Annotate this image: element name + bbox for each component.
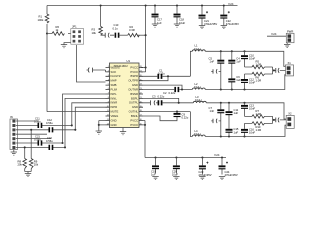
svg-text:0.56u: 0.56u: [34, 120, 41, 124]
capacitor C13a 10nF: [241, 103, 255, 117]
svg-text:0.56u: 0.56u: [34, 137, 41, 141]
capacitor C16a 10nF: [241, 123, 255, 136]
wire riser in2: [74, 107, 105, 131]
svg-text:5: 5: [108, 84, 109, 86]
svg-text:INPL: INPL: [111, 92, 118, 96]
resistor R7 1.0R: [245, 109, 273, 118]
svg-text:10nF: 10nF: [249, 107, 255, 111]
svg-text:470uF/35V: 470uF/35V: [226, 22, 239, 26]
capacitor C20 10uF: [172, 158, 180, 177]
svg-text:OUTPR: OUTPR: [128, 79, 138, 83]
connector X1: [286, 61, 294, 76]
svg-text:26: 26: [140, 75, 142, 77]
wire V24 to PWR: [267, 32, 286, 36]
svg-text:JP1: JP1: [72, 25, 77, 29]
svg-text:10uH: 10uH: [195, 98, 201, 102]
svg-text:2: 2: [108, 71, 109, 73]
svg-text:27: 27: [140, 71, 142, 73]
capacitor C18 10uF: [174, 4, 186, 24]
wire input w4: [16, 138, 51, 140]
svg-text:MHP: MHP: [111, 79, 117, 83]
svg-text:BSPR: BSPR: [131, 74, 139, 78]
svg-text:0.22u: 0.22u: [158, 72, 165, 76]
wire L4 out: [205, 125, 286, 137]
capacitor C13 0.1u: [113, 23, 128, 38]
svg-text:3.3R: 3.3R: [129, 28, 135, 32]
svg-text:10k: 10k: [92, 31, 97, 35]
capacitor C3 0.22u: [143, 95, 193, 106]
resistor R9 20k: [29, 129, 38, 172]
ground C17: [152, 24, 158, 27]
svg-text:10nF: 10nF: [249, 81, 255, 85]
svg-text:0.1u: 0.1u: [113, 26, 119, 30]
wire PVCC bottom vertical: [143, 121, 146, 158]
svg-text:28: 28: [140, 66, 142, 68]
ground input resistors: [25, 172, 32, 177]
svg-text:1uF: 1uF: [236, 78, 241, 82]
connector X2: [286, 112, 294, 129]
svg-text:V24: V24: [228, 2, 234, 6]
ground C21: [199, 26, 205, 29]
capacitor C16 0.56u: [16, 136, 65, 150]
svg-text:1nF: 1nF: [210, 60, 215, 64]
capacitor C4 1uF: [228, 51, 241, 78]
svg-text:23: 23: [140, 88, 142, 90]
capacitor C1 0.22u: [143, 69, 190, 81]
svg-text:18: 18: [140, 110, 142, 112]
ground IN: [11, 150, 17, 156]
svg-text:19: 19: [140, 106, 142, 108]
ground C22: [221, 26, 227, 29]
wire top V24 rail: [47, 5, 238, 7]
capacitor C19 1uF: [151, 158, 159, 177]
svg-text:BSPL: BSPL: [131, 96, 139, 100]
svg-text:V24: V24: [214, 153, 220, 157]
svg-text:SCK: SCK: [111, 70, 117, 74]
svg-text:10uH: 10uH: [194, 132, 200, 136]
resistor R5 1.0R: [245, 59, 273, 68]
svg-text:X2: X2: [288, 112, 292, 116]
capacitor C21 470uF: [199, 4, 218, 26]
svg-text:1.0R: 1.0R: [256, 112, 262, 116]
U1 left pin names: [111, 65, 121, 126]
wire PVCC branch vertical: [100, 4, 102, 26]
svg-text:11: 11: [107, 110, 109, 112]
svg-text:16: 16: [140, 119, 142, 121]
node V24 bottom label: [214, 153, 220, 157]
wire JP1 to IC pin: [77, 45, 106, 82]
capacitor C5 1nF: [209, 51, 225, 89]
svg-text:20: 20: [140, 101, 142, 103]
svg-text:OUTPL: OUTPL: [129, 101, 139, 105]
svg-text:0.22u: 0.22u: [169, 91, 176, 95]
capacitor out bottom coupling: [273, 116, 287, 123]
connector IN: [10, 115, 18, 150]
capacitor C6 1uF: [228, 75, 241, 90]
svg-text:15: 15: [140, 124, 142, 126]
capacitor C24 470uF: [219, 156, 238, 177]
svg-text:VREG: VREG: [111, 114, 119, 118]
capacitor C11a 1uF: [226, 103, 239, 129]
svg-text:0.56u: 0.56u: [46, 121, 53, 125]
svg-text:20k: 20k: [18, 163, 23, 167]
svg-text:GND: GND: [111, 123, 117, 127]
capacitor C22 470uF: [220, 4, 239, 26]
svg-text:4: 4: [108, 79, 109, 81]
svg-text:SMB: SMB: [111, 83, 117, 87]
svg-text:GND: GND: [132, 105, 138, 109]
capacitor C9 0.22u: [143, 111, 190, 121]
U1 right pin stubs: [139, 66, 143, 125]
svg-text:12: 12: [107, 115, 109, 117]
svg-text:9: 9: [108, 101, 109, 103]
capacitor snubber arc: [101, 33, 115, 38]
capacitor side tap top: [211, 69, 221, 73]
svg-text:1nF: 1nF: [210, 109, 215, 113]
svg-text:3: 3: [108, 75, 109, 77]
connector JP1: [71, 25, 84, 45]
wire left vertical from rail: [46, 6, 106, 112]
resistor R8 20k: [18, 146, 27, 171]
svg-text:FAULTZ: FAULTZ: [111, 74, 121, 78]
svg-text:1uF: 1uF: [236, 60, 241, 64]
svg-text:1uF: 1uF: [234, 130, 239, 134]
wire riser in3: [61, 94, 105, 144]
wire L2 out: [205, 75, 285, 91]
svg-text:PVCC: PVCC: [130, 118, 138, 122]
svg-text:1uF: 1uF: [151, 173, 156, 177]
inductor L3 10uH: [193, 95, 206, 103]
resistor R10 1.0R: [245, 122, 273, 132]
svg-text:C3: C3: [152, 95, 156, 99]
capacitor out top coupling: [273, 67, 286, 74]
svg-text:21: 21: [140, 97, 142, 99]
svg-text:0.56u: 0.56u: [46, 139, 53, 143]
svg-text:22: 22: [140, 93, 142, 95]
svg-text:1.0R: 1.0R: [256, 62, 262, 66]
svg-text:10nF: 10nF: [249, 131, 255, 135]
svg-text:24: 24: [140, 84, 142, 86]
capacitor C7 1nF: [209, 103, 225, 137]
svg-text:U1: U1: [127, 59, 131, 63]
ground U1 bottom: [120, 128, 126, 135]
svg-text:470uF/35V: 470uF/35V: [204, 22, 217, 26]
svg-text:10uF: 10uF: [172, 173, 178, 177]
svg-text:IN: IN: [10, 115, 13, 119]
capacitor side tap bottom: [211, 119, 221, 123]
resistor R6 1k: [47, 25, 71, 36]
wire input w1: [16, 120, 38, 122]
U1 left pin stubs: [106, 66, 110, 125]
svg-text:OUTNL: OUTNL: [129, 110, 139, 114]
svg-text:14: 14: [107, 124, 109, 126]
svg-text:GND: GND: [111, 118, 117, 122]
wire input w3: [16, 133, 47, 135]
resistor R3 10k: [92, 26, 103, 35]
svg-text:BSNR: BSNR: [130, 92, 138, 96]
inductor L1 10uH: [190, 44, 205, 77]
svg-text:GND: GND: [132, 83, 138, 87]
svg-text:PVCC: PVCC: [130, 123, 138, 127]
svg-text:MUTE: MUTE: [111, 110, 119, 114]
inductor L4 10uH: [190, 112, 205, 137]
capacitor C21 0.56u: [16, 134, 63, 145]
svg-text:6: 6: [108, 88, 109, 90]
svg-text:INNR: INNR: [111, 101, 118, 105]
capacitor C11 0.56u: [16, 117, 72, 128]
svg-text:100k: 100k: [38, 18, 44, 22]
ground PWR: [284, 43, 290, 48]
capacitor C12 0.56u: [16, 118, 76, 132]
svg-text:PVCC: PVCC: [130, 70, 138, 74]
connector PWR: [286, 29, 294, 42]
wire L3 out: [206, 102, 286, 119]
U1 right pin names: [128, 65, 138, 126]
svg-text:13: 13: [107, 119, 109, 121]
ground C18: [174, 24, 180, 27]
svg-text:X1: X1: [288, 61, 292, 65]
ground C24: [219, 177, 225, 180]
ground C23: [199, 177, 205, 180]
capacitor C10 10nF: [241, 51, 255, 67]
svg-text:1.0R: 1.0R: [256, 79, 262, 83]
wire L1 out: [205, 50, 285, 66]
svg-text:V24: V24: [271, 32, 277, 36]
capacitor C23 470uF: [198, 158, 211, 178]
svg-text:25: 25: [140, 79, 142, 81]
svg-text:INPR: INPR: [111, 105, 118, 109]
op-amp U1: [110, 59, 140, 128]
svg-text:C2: C2: [163, 91, 167, 95]
svg-text:10nF: 10nF: [249, 57, 255, 61]
svg-text:PVCC: PVCC: [130, 65, 138, 69]
wire bottom V24 rail: [145, 156, 226, 158]
svg-text:10uH: 10uH: [194, 85, 200, 89]
capacitor bypass at U1 left: [87, 68, 106, 73]
capacitor C12 10nF: [241, 74, 255, 90]
svg-text:0.22u: 0.22u: [182, 116, 189, 120]
capacitor C15 1uF: [226, 127, 239, 136]
svg-text:PLIM: PLIM: [111, 87, 118, 91]
resistor R2 3.3R: [128, 25, 146, 37]
svg-text:20k: 20k: [34, 163, 39, 167]
resistor R1 100k: [38, 14, 49, 23]
wire PVCC top vertical: [141, 4, 147, 71]
resistor R6a 1.0R: [245, 72, 273, 82]
svg-text:10: 10: [107, 106, 109, 108]
svg-text:1.0R: 1.0R: [256, 128, 262, 132]
ground below JP1: [61, 43, 71, 48]
svg-text:470uF/35V: 470uF/35V: [225, 173, 238, 177]
svg-text:1: 1: [108, 66, 109, 68]
inductor L2 10uH: [192, 82, 205, 90]
ground C20: [173, 177, 179, 180]
svg-text:BSNL: BSNL: [131, 114, 139, 118]
svg-text:1uF: 1uF: [234, 111, 239, 115]
node V24 top label: [228, 2, 234, 6]
svg-text:PWR: PWR: [287, 29, 293, 33]
svg-text:0.22u: 0.22u: [158, 95, 165, 99]
svg-text:OUTNR: OUTNR: [128, 87, 138, 91]
svg-text:WDDIS: WDDIS: [111, 65, 120, 69]
svg-text:8: 8: [108, 97, 109, 99]
capacitor C2 0.22u: [143, 85, 192, 95]
wire riser in4: [64, 98, 106, 148]
capacitor C17 1uF: [152, 4, 163, 24]
svg-text:7: 7: [108, 93, 109, 95]
ground U1 left pins: [96, 121, 106, 135]
wire riser in1: [71, 103, 106, 127]
svg-text:10uH: 10uH: [194, 47, 200, 51]
svg-text:INNL: INNL: [111, 96, 118, 100]
ground C19: [152, 177, 158, 180]
svg-text:17: 17: [140, 115, 142, 117]
